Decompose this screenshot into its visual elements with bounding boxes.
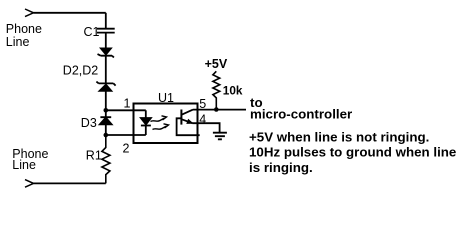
- wire top vertical to C1: [105, 13, 107, 29]
- terminal bottom phone line: [25, 180, 34, 188]
- zener diode D2 (lower, cathode up): [96, 82, 115, 86]
- svg-text:+5V: +5V: [205, 57, 228, 71]
- svg-text:micro-controller: micro-controller: [250, 107, 352, 122]
- wire D2b to node A: [105, 91, 107, 110]
- pin 4 wire: [192, 123, 219, 132]
- svg-text:Phone: Phone: [6, 22, 42, 36]
- svg-text:10Hz pulses to ground when lin: 10Hz pulses to ground when line: [249, 145, 456, 160]
- emitter: [181, 119, 192, 123]
- base lead wrap: [177, 118, 200, 135]
- svg-text:Line: Line: [12, 158, 36, 172]
- svg-text:4: 4: [199, 113, 206, 127]
- wire C1 to D2a: [105, 33, 107, 49]
- node output junction dot: [214, 107, 219, 112]
- wire D2a to D2b: [105, 56, 107, 84]
- wire D3 to node B: [105, 124, 107, 135]
- collector: [181, 110, 193, 115]
- wire bottom horizontal: [34, 182, 106, 184]
- LED inside U1: [145, 110, 147, 118]
- svg-text:is ringing.: is ringing.: [249, 160, 313, 175]
- pin 2 wire: [106, 134, 146, 136]
- svg-text:C1: C1: [84, 25, 100, 39]
- svg-text:1: 1: [124, 97, 131, 111]
- svg-text:10k: 10k: [223, 84, 243, 98]
- svg-text:D3: D3: [81, 116, 97, 130]
- resistor 10k zigzag: [213, 71, 220, 109]
- resistor R1 zigzag: [102, 135, 110, 183]
- svg-text:R1: R1: [86, 149, 102, 163]
- zener diode D2 (upper, cathode down): [101, 48, 111, 54]
- diode D3 (cathode up): [100, 110, 111, 117]
- svg-text:+5V when line is not ringing.: +5V when line is not ringing.: [249, 130, 429, 145]
- light arrow 1: [151, 118, 165, 122]
- svg-text:U1: U1: [158, 91, 174, 105]
- phototransistor Q inside U1 : base bar: [180, 110, 182, 125]
- capacitor C1: [97, 29, 115, 33]
- wire top horizontal: [34, 12, 106, 14]
- pin 5 wire to micro-controller: [193, 109, 246, 111]
- svg-text:5: 5: [199, 97, 206, 111]
- optocoupler U1 box: [134, 104, 198, 144]
- svg-text:D2,D2: D2,D2: [63, 63, 98, 77]
- svg-text:2: 2: [123, 142, 130, 156]
- ground: [213, 133, 227, 140]
- svg-text:Line: Line: [6, 35, 30, 49]
- pin 1 wire: [106, 109, 146, 111]
- node B junction dot: [104, 133, 109, 138]
- terminal top phone line: [25, 9, 34, 17]
- emitter arrowhead: [187, 120, 192, 124]
- light arrow 2: [153, 126, 167, 130]
- node A junction dot: [104, 108, 109, 113]
